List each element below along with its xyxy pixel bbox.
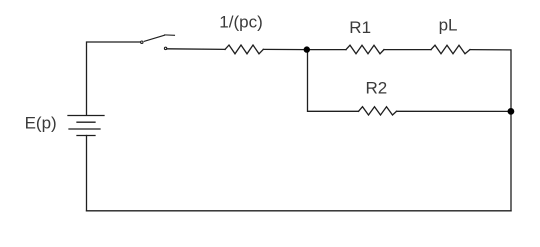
node B junction dot	[508, 108, 515, 115]
switch S1	[141, 35, 175, 50]
svg-text:1/(pc): 1/(pc)	[219, 12, 262, 31]
svg-text:pL: pL	[439, 15, 458, 34]
wire capacitor to node A	[263, 48, 307, 50]
svg-text:E(p): E(p)	[25, 114, 57, 133]
wire node A to R1	[307, 49, 346, 51]
node A junction dot	[304, 46, 310, 52]
wire top-left horizontal from left vertical to switch	[87, 42, 141, 115]
inductor impedance pL zigzag	[431, 45, 470, 54]
svg-text:R1: R1	[349, 18, 371, 37]
svg-text:R2: R2	[366, 79, 388, 98]
wire R1 to pL	[384, 49, 431, 51]
wire bottom	[87, 210, 512, 212]
wire left vertical below battery	[86, 136, 88, 211]
resistor R1 zigzag	[346, 45, 384, 54]
capacitor impedance 1/(pc) zigzag	[225, 45, 263, 54]
wire node A down to R2 branch	[308, 50, 359, 112]
wire R2 to node B	[397, 110, 512, 112]
battery E(p)	[68, 116, 104, 136]
wire switch to capacitor impedance	[167, 48, 225, 51]
resistor R2 zigzag	[359, 107, 397, 115]
wire pL to top-right corner and right vertical	[470, 50, 511, 211]
